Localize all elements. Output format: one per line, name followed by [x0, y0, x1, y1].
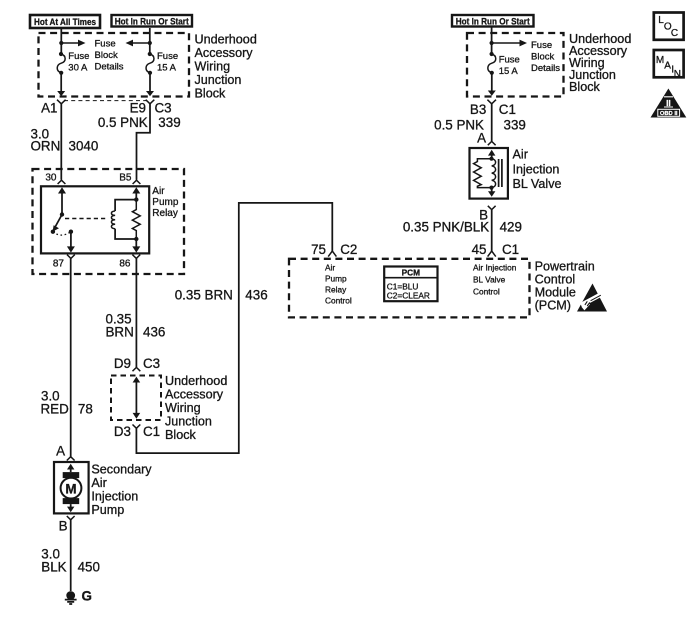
connector chevron: valve terminal A — [488, 141, 496, 145]
SECTION: top-right feed + valve — [403, 15, 631, 251]
svg-text:Air: Air — [91, 476, 106, 490]
connector chevron: terminal E9/C3 — [146, 100, 155, 104]
svg-text:339: 339 — [504, 118, 526, 133]
PCM connector legend box — [384, 267, 437, 302]
arrow: branch to Fuse Block Details (points left) — [132, 42, 150, 44]
svg-text:Fuse: Fuse — [157, 51, 178, 62]
junction block box: Underhood Accessory Wiring Junction Block (right, dashed) — [467, 33, 564, 97]
svg-text:B: B — [59, 519, 68, 534]
connector chevron: terminal D9 — [133, 367, 141, 371]
svg-text:Relay: Relay — [325, 284, 347, 294]
svg-text:0.35 BRN: 0.35 BRN — [175, 288, 233, 303]
svg-text:0.35 PNK/BLK: 0.35 PNK/BLK — [403, 220, 489, 235]
svg-text:N: N — [674, 69, 681, 80]
svg-text:Control: Control — [325, 295, 352, 305]
svg-text:Fuse: Fuse — [499, 55, 520, 66]
svg-text:Fuse: Fuse — [68, 51, 89, 62]
svg-text:E9: E9 — [130, 101, 146, 116]
wire: B3 down to valve terminal A — [491, 104, 493, 142]
svg-text:A: A — [56, 444, 65, 459]
relay resistor (parallel with coil) — [132, 200, 140, 239]
connector chevron: pin B5 — [133, 180, 141, 184]
dashed actuation link from switch to coil — [65, 218, 108, 220]
svg-text:M: M — [656, 55, 664, 66]
fuse F1: Fuse 30 A — [59, 52, 63, 56]
svg-text:M: M — [65, 481, 76, 496]
dotted travel arc of switch — [53, 232, 71, 235]
wire: pump internal bottom with down arrow — [70, 504, 72, 507]
valve body box: Air Injection BL Valve — [470, 148, 508, 199]
SECTION: PCM — [289, 242, 607, 317]
wire: D3/C1 down, right, up, right to PCM 75 (0.35 BRN 436) — [136, 203, 332, 453]
wire: Hot In Run Or Start down to fuse branch — [149, 28, 151, 54]
svg-text:Injection: Injection — [91, 490, 138, 504]
svg-text:Air: Air — [513, 148, 528, 162]
svg-text:PCM: PCM — [402, 268, 421, 278]
svg-text:Pump: Pump — [325, 273, 347, 283]
svg-text:BRN: BRN — [106, 325, 134, 340]
ground G103 symbol — [66, 591, 75, 600]
svg-text:45: 45 — [472, 242, 487, 257]
motor M bottom brush — [63, 498, 79, 504]
connector chevron: valve terminal B — [488, 206, 496, 210]
wire: Hot In Run Or Start down to fuse branch (right) — [491, 28, 493, 54]
arrow: branch to Fuse Block Details (right, points right) — [492, 42, 521, 44]
svg-text:Injection: Injection — [513, 163, 560, 177]
svg-text:339: 339 — [158, 115, 180, 130]
wire: pump internal top with up arrow — [70, 468, 72, 472]
svg-text:Block: Block — [195, 87, 226, 101]
wire: pass-through vertical with up arrow at top — [135, 382, 137, 413]
fuse F2: Fuse 15 A (left block) — [148, 52, 152, 56]
wire: relay pin 87 down to pump terminal A (3.0 RED 78) — [70, 258, 72, 456]
wire: Hot At All Times down to fuse branch — [60, 28, 62, 54]
connector chevron: terminal B3/C1 — [487, 100, 496, 104]
svg-text:436: 436 — [143, 325, 165, 340]
svg-text:Fuse: Fuse — [531, 40, 552, 51]
SECTION: left lower chain (pump, ground) — [41, 258, 153, 604]
legend icon: OBD II triangle — [651, 89, 687, 118]
svg-text:15 A: 15 A — [157, 63, 177, 74]
svg-text:Wiring: Wiring — [165, 401, 201, 415]
svg-text:C3: C3 — [155, 101, 172, 116]
connector chevron: pin 87 — [67, 255, 75, 259]
svg-text:86: 86 — [119, 259, 131, 270]
svg-text:Hot In Run Or Start: Hot In Run Or Start — [456, 17, 531, 28]
node: valve bottom dot — [489, 186, 493, 190]
node: coil top dot — [134, 197, 138, 201]
svg-text:C1: C1 — [143, 424, 160, 439]
junction block pass-through box (dashed) — [111, 376, 161, 421]
power tag: Hot At All Times — [30, 15, 100, 28]
svg-text:Junction: Junction — [165, 415, 212, 429]
svg-text:0.5 PNK: 0.5 PNK — [98, 115, 148, 130]
relay switch blade (open position) — [54, 215, 62, 229]
svg-text:Details: Details — [95, 62, 124, 73]
svg-text:Control: Control — [473, 286, 500, 296]
relay switch common leg with up arrow (pin 30 side) — [61, 193, 63, 215]
wire: relay pin 86 down to D9 (0.35 BRN 436) — [135, 258, 137, 367]
svg-text:BL Valve: BL Valve — [473, 274, 506, 284]
relay coil windings — [111, 211, 115, 229]
connector chevron: pump terminal B — [67, 516, 75, 520]
valve resistor (parallel) — [474, 159, 492, 188]
svg-text:C2: C2 — [340, 242, 357, 257]
svg-text:Underhood: Underhood — [195, 33, 257, 47]
svg-text:30: 30 — [45, 173, 57, 184]
svg-text:78: 78 — [78, 402, 93, 417]
node: switch throw dot (NO left) — [51, 230, 55, 234]
svg-text:Block: Block — [531, 52, 554, 63]
svg-text:Air Injection: Air Injection — [473, 262, 517, 272]
SECTION: middle junction block + brn wire routing — [106, 203, 333, 453]
svg-text:Accessory: Accessory — [165, 388, 224, 402]
power tag: Hot In Run Or Start (left) — [112, 15, 193, 28]
svg-text:Fuse: Fuse — [95, 39, 116, 50]
svg-text:A: A — [664, 60, 671, 71]
fuse F3: Fuse 15 A (right block) — [490, 52, 494, 56]
svg-text:RED: RED — [41, 402, 70, 417]
wire: coil bottom down with arrow to pin 86 — [135, 239, 137, 247]
svg-text:Wiring: Wiring — [195, 60, 231, 74]
pump body box — [54, 462, 89, 513]
node: coil bottom dot — [134, 237, 138, 241]
svg-text:450: 450 — [78, 560, 100, 575]
svg-text:3040: 3040 — [69, 139, 99, 154]
wire: pump terminal B down to ground (3.0 BLK 450) — [70, 520, 72, 591]
node: branch dot above Fuse 15A — [148, 41, 152, 45]
connector chevron: pin 30 — [58, 180, 66, 184]
svg-text:436: 436 — [245, 288, 267, 303]
svg-text:C: C — [671, 28, 678, 39]
motor M top brush — [63, 472, 79, 478]
wire: fuse down to block edge with arrow (right) — [491, 73, 493, 91]
wire: B5 pin into coil node with up arrow — [135, 193, 137, 200]
svg-text:A1: A1 — [41, 101, 57, 116]
SECTION: corner icons — [651, 13, 687, 118]
power tag: Hot In Run Or Start (right) — [452, 15, 534, 28]
svg-text:Air: Air — [325, 262, 335, 272]
SECTION: top-left feed — [30, 15, 257, 180]
svg-text:Relay: Relay — [152, 208, 178, 219]
relay coil branch: top/bottom connectors — [115, 200, 136, 239]
connector chevron: pin 86 — [132, 255, 140, 259]
connector chevron: PCM pin 45/C1 — [488, 251, 496, 257]
svg-text:Air: Air — [152, 186, 165, 197]
connector chevron: pump terminal A — [67, 457, 75, 461]
svg-text:Details: Details — [531, 63, 560, 74]
svg-text:Pump: Pump — [152, 197, 179, 208]
svg-text:Block: Block — [95, 50, 118, 61]
relay K1 dashed outline — [33, 169, 185, 274]
svg-text:(PCM): (PCM) — [535, 299, 571, 313]
junction block box: Underhood Accessory Wiring Junction Block (left, dashed) — [39, 33, 190, 97]
svg-text:Accessory: Accessory — [195, 46, 254, 60]
svg-text:C3: C3 — [143, 356, 160, 371]
svg-text:D9: D9 — [114, 356, 131, 371]
legend icon: MAIN box — [654, 50, 684, 80]
svg-text:Hot At All Times: Hot At All Times — [34, 17, 96, 28]
wire: C3 down jog to relay pin B5 — [137, 104, 151, 180]
PCM dashed outline — [289, 259, 530, 318]
svg-text:Junction: Junction — [195, 73, 242, 87]
relay solid body — [41, 186, 149, 253]
svg-text:75: 75 — [311, 242, 326, 257]
wire: valve internal bottom with down arrow — [491, 188, 493, 192]
wire: fuse 15A down to block edge with arrow — [149, 73, 151, 91]
node: valve top dot — [489, 157, 493, 161]
svg-text:C2=CLEAR: C2=CLEAR — [387, 291, 430, 301]
down arrow at bottom of pass-through — [133, 413, 141, 419]
svg-text:B3: B3 — [470, 102, 486, 117]
wire: valve internal top with up arrow — [491, 154, 493, 159]
svg-text:Block: Block — [569, 80, 600, 94]
svg-text:BLK: BLK — [41, 560, 66, 575]
connector chevron: PCM pin 75/C2 — [328, 251, 336, 257]
svg-text:D3: D3 — [114, 424, 131, 439]
svg-text:C1: C1 — [502, 242, 519, 257]
arrow: branch to Fuse Block Details (points right) — [61, 42, 79, 44]
svg-text:G: G — [82, 589, 92, 604]
wire: valve B down to PCM 45 (0.35 PNK/BLK 429) — [491, 210, 493, 251]
svg-text:Control: Control — [535, 273, 576, 287]
ESD sensitivity triangle symbol — [577, 284, 607, 312]
svg-text:Block: Block — [165, 428, 196, 442]
svg-text:Module: Module — [535, 286, 576, 300]
svg-text:Hot In Run Or Start: Hot In Run Or Start — [115, 17, 190, 28]
legend icon: LOC box — [654, 13, 684, 40]
wire: switch output down with arrow to pin 87 — [70, 232, 72, 247]
svg-text:B5: B5 — [119, 173, 132, 184]
svg-text:Pump: Pump — [91, 503, 124, 517]
connector chevron: terminal A1 — [57, 100, 66, 104]
wire: A1 down to relay pin 30 — [60, 104, 62, 180]
wire: fuse 30A down to block edge with arrow — [60, 73, 62, 91]
svg-text:A: A — [477, 131, 486, 146]
svg-text:Underhood: Underhood — [165, 374, 227, 388]
node: switch output dot (pin 87) — [69, 230, 73, 234]
SECTION: air pump relay — [33, 169, 185, 274]
svg-text:15 A: 15 A — [499, 66, 519, 77]
connector row line C3 (thin dashed) — [64, 100, 147, 102]
valve solenoid coil windings — [492, 159, 496, 188]
svg-text:87: 87 — [53, 259, 65, 270]
node: switch pivot dot — [60, 212, 64, 216]
svg-text:C1: C1 — [499, 102, 516, 117]
svg-text:OBD II: OBD II — [660, 111, 678, 117]
svg-text:ORN: ORN — [31, 139, 61, 154]
svg-text:30 A: 30 A — [68, 63, 88, 74]
node: branch dot above Fuse 30A — [59, 41, 63, 45]
connector chevron: terminal D3 — [133, 425, 141, 429]
motor M circle — [61, 478, 82, 499]
svg-text:Secondary: Secondary — [91, 463, 152, 477]
svg-text:BL Valve: BL Valve — [513, 177, 562, 191]
svg-text:Powertrain: Powertrain — [535, 260, 595, 274]
svg-text:429: 429 — [500, 220, 522, 235]
valve plate lines — [499, 159, 502, 187]
node: branch dot above Fuse 15A (right) — [490, 41, 494, 45]
